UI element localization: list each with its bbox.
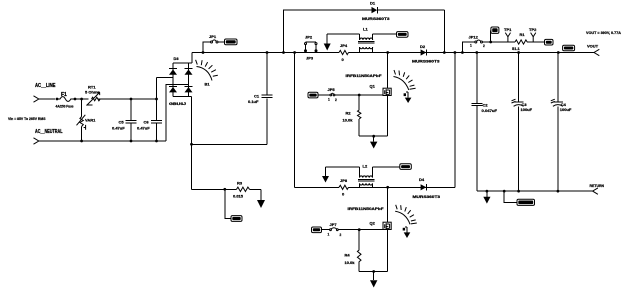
svg-text:0.47uF: 0.47uF: [112, 126, 125, 131]
svg-text:R4: R4: [345, 253, 351, 258]
svg-text:1: 1: [328, 233, 330, 237]
tag VOUT net: [563, 45, 575, 51]
junctions on return rail: [486, 190, 489, 193]
svg-text:Q2: Q2: [370, 221, 376, 226]
net arrow L2 aux left: [325, 167, 327, 176]
svg-text:2: 2: [483, 44, 485, 48]
svg-text:4A/250 Fuse: 4A/250 Fuse: [56, 105, 74, 109]
net arrow Q1 drain-heatsink: [404, 93, 406, 96]
svg-text:JP7: JP7: [330, 222, 338, 227]
junction CS node: [223, 188, 226, 191]
svg-text:0.1uF: 0.1uF: [248, 99, 259, 104]
svg-text:JP5: JP5: [328, 87, 336, 92]
tag JP1 net: [225, 39, 238, 45]
wire bridge AC2 riser: [166, 85, 188, 142]
svg-text:MURS360T3: MURS360T3: [362, 16, 390, 21]
diode D3b: [185, 69, 193, 74]
svg-text:L2: L2: [363, 164, 368, 169]
tag DRV2 net: [312, 227, 322, 233]
svg-text:RETURN: RETURN: [590, 183, 605, 188]
diode D1: [372, 7, 378, 13]
svg-text:0.47uF: 0.47uF: [137, 126, 150, 131]
svg-text:51.1: 51.1: [512, 46, 521, 51]
core L1: [358, 42, 375, 43]
wire Q1 source bus: [359, 135, 388, 137]
svg-text:2: 2: [335, 98, 337, 102]
wire PGND stub: [504, 191, 517, 202]
ground arrow (return): [486, 191, 488, 197]
svg-text:AC__NEUTRAL: AC__NEUTRAL: [35, 129, 63, 135]
svg-text:IRFB11N50APbF: IRFB11N50APbF: [348, 206, 385, 211]
terminal RETURN: [593, 188, 598, 194]
junctions on main rail: [202, 51, 205, 54]
wire main rail: [192, 52, 339, 54]
wire bridge AC1: [157, 77, 174, 79]
svg-text:C1: C1: [254, 94, 260, 99]
svg-text:0.015: 0.015: [233, 194, 244, 199]
terminal AC_NEUTRAL: [34, 138, 39, 144]
svg-text:C6: C6: [144, 120, 150, 125]
wire bridge DC- drop: [191, 97, 193, 190]
svg-text:10.0k: 10.0k: [345, 260, 356, 265]
svg-text:1: 1: [470, 44, 472, 48]
wire D4 output riser: [454, 53, 456, 188]
svg-text:MURS360T3: MURS360T3: [413, 194, 441, 199]
svg-text:JP2: JP2: [305, 35, 313, 40]
svg-text:JP8: JP8: [340, 178, 348, 183]
svg-text:VOUT: VOUT: [587, 44, 599, 49]
svg-text:100uF: 100uF: [560, 107, 572, 112]
tag sense net 2: [545, 39, 554, 45]
junction JP12 tag node: [489, 41, 492, 44]
svg-text:C5: C5: [119, 120, 125, 125]
svg-text:Vin = 85V To 265V RMS: Vin = 85V To 265V RMS: [8, 117, 46, 121]
svg-text:JP12: JP12: [469, 35, 479, 40]
svg-text:VOUT = 390V, 0.77A: VOUT = 390V, 0.77A: [586, 30, 621, 35]
diode D1 branch: [284, 10, 372, 53]
svg-text:100uF: 100uF: [521, 107, 533, 112]
svg-text:2: 2: [340, 233, 342, 237]
wire DC- to C1: [192, 143, 268, 145]
heatsink Q1: [394, 77, 409, 91]
ground arrow (Q1): [373, 136, 375, 141]
wire line-to-fuse: [39, 98, 55, 100]
terminal VOUT: [594, 49, 599, 55]
net arrow L1 aux left: [326, 34, 328, 43]
wire Q2 source bus: [359, 271, 388, 273]
junction gate1: [358, 94, 361, 97]
wire phase2 feed column: [294, 53, 296, 188]
svg-text:D2: D2: [420, 44, 426, 49]
svg-text:L1: L1: [363, 27, 368, 32]
svg-text:AC__LINE: AC__LINE: [35, 83, 56, 89]
diode D3d: [185, 87, 193, 92]
net arrow Q2 drain-heatsink: [403, 228, 405, 231]
junction gate2: [358, 228, 361, 231]
svg-text:D4: D4: [419, 177, 425, 182]
diode D3c: [169, 87, 177, 92]
tag sense net: [491, 27, 499, 33]
winding L2 main: [360, 183, 373, 185]
tag DRV1 net: [308, 92, 318, 98]
svg-text:VAR1: VAR1: [85, 118, 96, 123]
svg-text:IRFB11N50APbF: IRFB11N50APbF: [346, 73, 383, 78]
svg-text:R1: R1: [520, 32, 526, 37]
junction VAR1 bottom: [80, 140, 83, 143]
svg-text:JP3: JP3: [306, 56, 314, 61]
wire fuse-to-RT1: [76, 98, 89, 100]
heatsink B1: [197, 67, 213, 81]
diode D3a: [169, 69, 177, 74]
svg-text:D3: D3: [174, 56, 180, 61]
svg-text:JP1: JP1: [209, 34, 217, 39]
wire RT1-to-C6node: [98, 98, 157, 100]
svg-text:TP1: TP1: [504, 27, 512, 32]
tag L2 aux net: [400, 164, 412, 170]
tag PGND: [517, 199, 535, 205]
wire lower rail: [295, 186, 339, 188]
tag L1 aux net: [397, 32, 409, 38]
wire CS stub: [225, 189, 231, 218]
ground arrow (R3): [257, 200, 265, 208]
wire AC_NEUTRAL: [39, 140, 166, 142]
core L2: [358, 179, 375, 181]
svg-text:0.047uF: 0.047uF: [482, 108, 498, 113]
junction Q2 drain: [386, 186, 389, 189]
svg-text:R3: R3: [237, 181, 243, 186]
svg-text:D1: D1: [370, 1, 376, 6]
svg-text:10.0k: 10.0k: [343, 118, 354, 123]
ground arrow (Q2): [373, 272, 375, 281]
svg-text:C2: C2: [483, 103, 489, 108]
svg-text:JP4: JP4: [340, 43, 348, 48]
heatsink Q2: [395, 211, 410, 224]
svg-text:Q1: Q1: [370, 84, 376, 89]
svg-text:R2: R2: [346, 111, 352, 116]
wire bridge DC+ riser: [191, 53, 193, 63]
wire shunt row: [192, 188, 237, 190]
wire return rail: [477, 190, 593, 192]
svg-text:TP2: TP2: [529, 27, 537, 32]
svg-text:GBU6J: GBU6J: [169, 101, 186, 106]
junction VAR1 top: [80, 98, 83, 101]
tag CS: [231, 216, 242, 222]
terminal AC_LINE: [34, 96, 39, 102]
svg-text:1: 1: [328, 98, 330, 102]
winding L1 main: [360, 47, 373, 49]
svg-text:MURS360T3: MURS360T3: [412, 59, 440, 64]
svg-text:B1: B1: [205, 82, 211, 87]
